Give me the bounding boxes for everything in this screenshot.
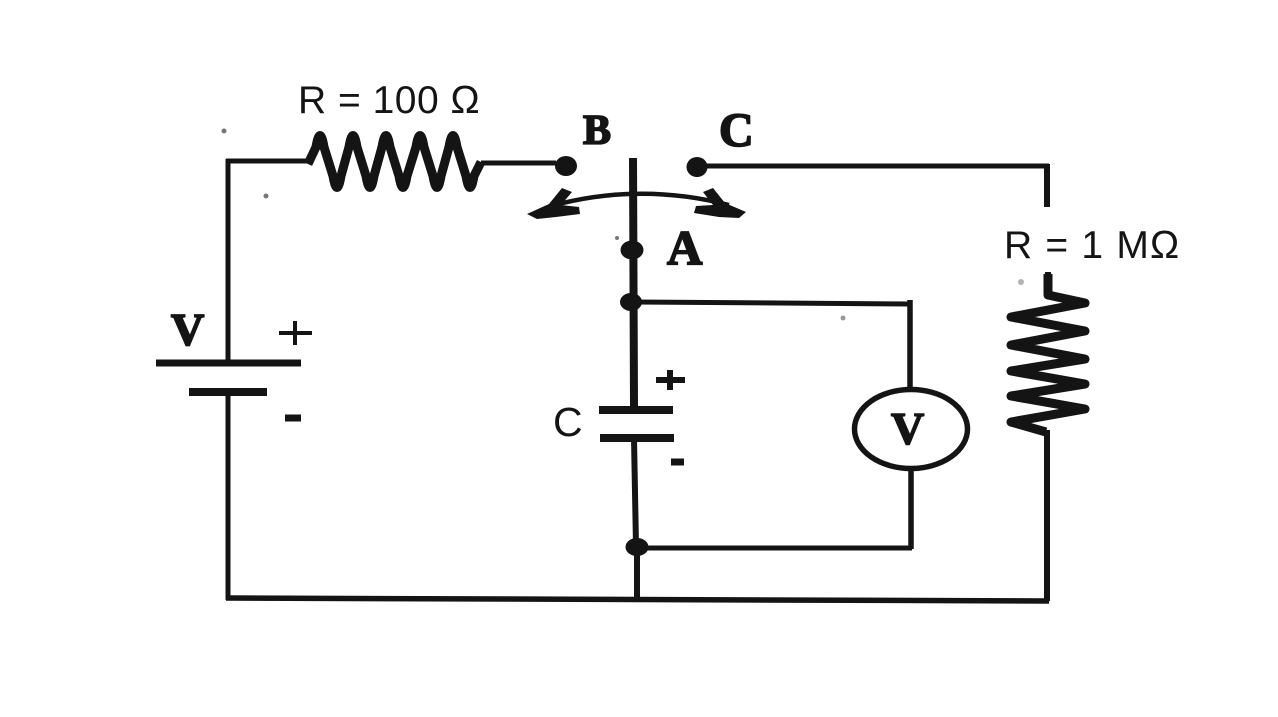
voltmeter bottom lead (908, 470, 914, 549)
capacitor top plate (599, 406, 673, 414)
node B dot (555, 156, 577, 176)
svg-text:C: C (553, 399, 583, 445)
wire left vertical upper (battery top lead) (226, 159, 231, 363)
bottom wire (226, 598, 1049, 601)
capacitor minus sign (671, 459, 684, 466)
battery long plate (156, 360, 301, 367)
wire capacitor junction to bottom wire (634, 546, 640, 600)
switch arrowhead left (527, 188, 580, 219)
svg-text:R = 1 MΩ: R = 1 MΩ (1004, 224, 1180, 267)
capacitor bottom plate (600, 434, 674, 442)
switch arm wire (633, 158, 634, 406)
svg-text:V: V (171, 304, 204, 355)
svg-text:B: B (583, 108, 611, 154)
node A dot (621, 241, 644, 260)
capacitor plus sign (656, 370, 685, 390)
right wire below label (1045, 272, 1051, 296)
battery short plate (189, 388, 267, 396)
junction dot at capacitor bottom (626, 538, 649, 556)
capacitor bottom lead (634, 438, 636, 546)
wire top left horizontal (226, 159, 308, 164)
voltmeter V body (855, 390, 968, 469)
right wire lower segment (1044, 430, 1050, 601)
node C dot (687, 157, 708, 177)
svg-text:C: C (719, 104, 754, 157)
svg-text:R = 100 Ω: R = 100 Ω (298, 79, 480, 122)
right wire upper segment (1044, 164, 1050, 207)
battery minus sign (285, 415, 301, 422)
wire left vertical lower (battery bottom lead) (226, 392, 231, 600)
wire node C to top right corner (706, 164, 1049, 169)
wire junction to voltmeter bottom (636, 546, 912, 551)
resistor R = 100 Ω (308, 136, 481, 188)
switch arrowhead right (694, 188, 746, 218)
wire junction to voltmeter top (633, 302, 912, 304)
battery plus sign (279, 321, 312, 345)
svg-text:A: A (667, 220, 703, 275)
resistor R = 1 MΩ zigzag (1011, 274, 1085, 432)
voltmeter top lead (907, 300, 913, 389)
junction dot below A (620, 293, 642, 311)
switch arc arrow (551, 194, 729, 206)
svg-text:V: V (891, 403, 924, 454)
wire resistor to node B (481, 161, 556, 166)
